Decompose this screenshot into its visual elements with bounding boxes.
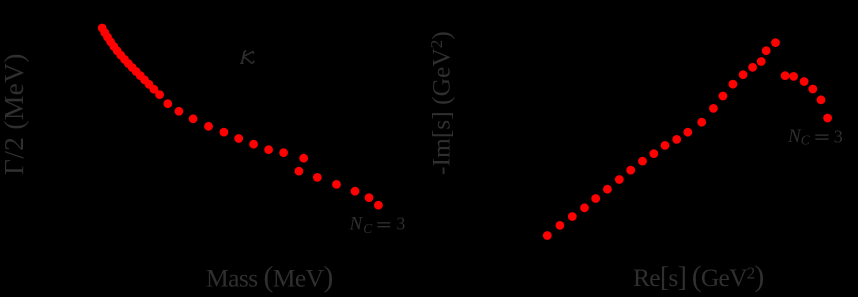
left plot annotation N_C = 3 — [349, 213, 406, 236]
svg-text:-Im[s] (GeV2): -Im[s] (GeV2) — [427, 31, 456, 175]
right data series: ascending trajectory — [543, 38, 780, 240]
svg-text:Mass (MeV): Mass (MeV) — [206, 262, 333, 294]
svg-text:C: C — [363, 221, 373, 236]
left data series: dense pole-trajectory band — [98, 24, 308, 163]
right data series: descending hook branch — [781, 71, 832, 122]
annotation kappa — [241, 51, 254, 64]
svg-text:3: 3 — [397, 213, 406, 233]
svg-text:C: C — [801, 133, 811, 148]
svg-text:N: N — [349, 214, 364, 235]
svg-text:3: 3 — [834, 127, 843, 147]
svg-text:Re[s] (GeV2): Re[s] (GeV2) — [633, 261, 764, 293]
left data series: lower branch after threshold jump — [295, 167, 383, 210]
svg-text:Γ/2 (MeV): Γ/2 (MeV) — [0, 53, 29, 175]
right plot annotation N_C = 3 — [787, 126, 843, 148]
